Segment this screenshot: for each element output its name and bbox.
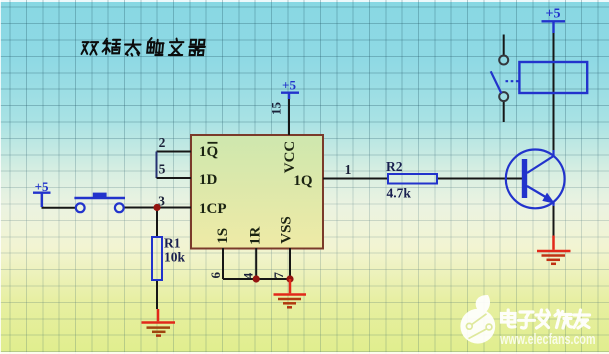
relay contact switch <box>491 56 519 102</box>
wire 1Q to R2 <box>323 178 388 180</box>
wire relay +5 down through relay to collector <box>553 33 555 151</box>
svg-text:15: 15 <box>269 102 284 116</box>
wire bottom bus <box>223 278 290 280</box>
wire R1 top <box>156 208 158 238</box>
power +5 VCC <box>281 78 299 100</box>
svg-text:+5: +5 <box>546 7 561 22</box>
svg-text:1CP: 1CP <box>199 201 227 217</box>
svg-text:1Q: 1Q <box>199 144 219 160</box>
power +5 relay <box>542 7 566 34</box>
wire R1 bottom to ground <box>156 280 158 309</box>
power +5 left <box>33 179 51 207</box>
svg-text:+5: +5 <box>282 78 296 93</box>
svg-text:VSS: VSS <box>279 216 295 244</box>
wire loop 2-to-5 vertical <box>156 152 158 179</box>
watermark text 电子发烧友 <box>502 310 590 328</box>
ground under R1 <box>142 309 176 336</box>
junction node pin3/R1 <box>153 204 160 211</box>
wire pin2 <box>157 151 192 153</box>
wire pin6 down <box>222 248 224 279</box>
wire pin7 down <box>289 248 291 279</box>
junction node pin4 <box>253 275 260 282</box>
resistor R1 <box>152 237 162 280</box>
wire emitter down <box>553 206 555 236</box>
junction node pin7 <box>286 275 293 282</box>
svg-text:6: 6 <box>208 271 223 278</box>
wire pin4 down <box>255 248 257 279</box>
ground under transistor emitter <box>537 236 571 264</box>
svg-text:7: 7 <box>271 271 286 278</box>
wire +5 left to pushbutton <box>43 207 77 208</box>
svg-text:2: 2 <box>159 135 166 150</box>
svg-text:1S: 1S <box>215 228 231 244</box>
pin label 1Q-bar <box>199 143 219 160</box>
svg-text:R2: R2 <box>386 159 403 174</box>
svg-text:1D: 1D <box>199 172 218 188</box>
watermark logo circle <box>460 295 495 344</box>
svg-text:VCC: VCC <box>282 141 298 174</box>
svg-text:1R: 1R <box>248 226 264 245</box>
relay K1 coil box <box>519 62 587 93</box>
svg-text:5: 5 <box>159 162 166 177</box>
resistor R2 <box>388 174 437 184</box>
ground under VSS pin7 <box>274 279 307 307</box>
wire pin5 <box>157 177 192 179</box>
wire switch bottom lead <box>503 102 505 123</box>
wire switch top lead <box>503 35 505 57</box>
wire R2 to transistor base <box>437 178 522 180</box>
title 双稳态触发器 <box>81 38 205 56</box>
wire VCC pin 15 <box>288 99 290 136</box>
svg-text:R1: R1 <box>164 236 181 251</box>
svg-text:www.elecfans.com: www.elecfans.com <box>499 332 595 348</box>
transistor Q1 <box>506 150 565 209</box>
wire pin3 from pushbutton <box>124 207 192 209</box>
svg-text:4.7k: 4.7k <box>387 186 412 201</box>
svg-text:1: 1 <box>345 162 352 177</box>
IC U1 body <box>191 135 323 249</box>
pushbutton S1 <box>74 193 125 213</box>
svg-text:1Q: 1Q <box>293 173 313 189</box>
svg-text:10k: 10k <box>164 250 186 265</box>
